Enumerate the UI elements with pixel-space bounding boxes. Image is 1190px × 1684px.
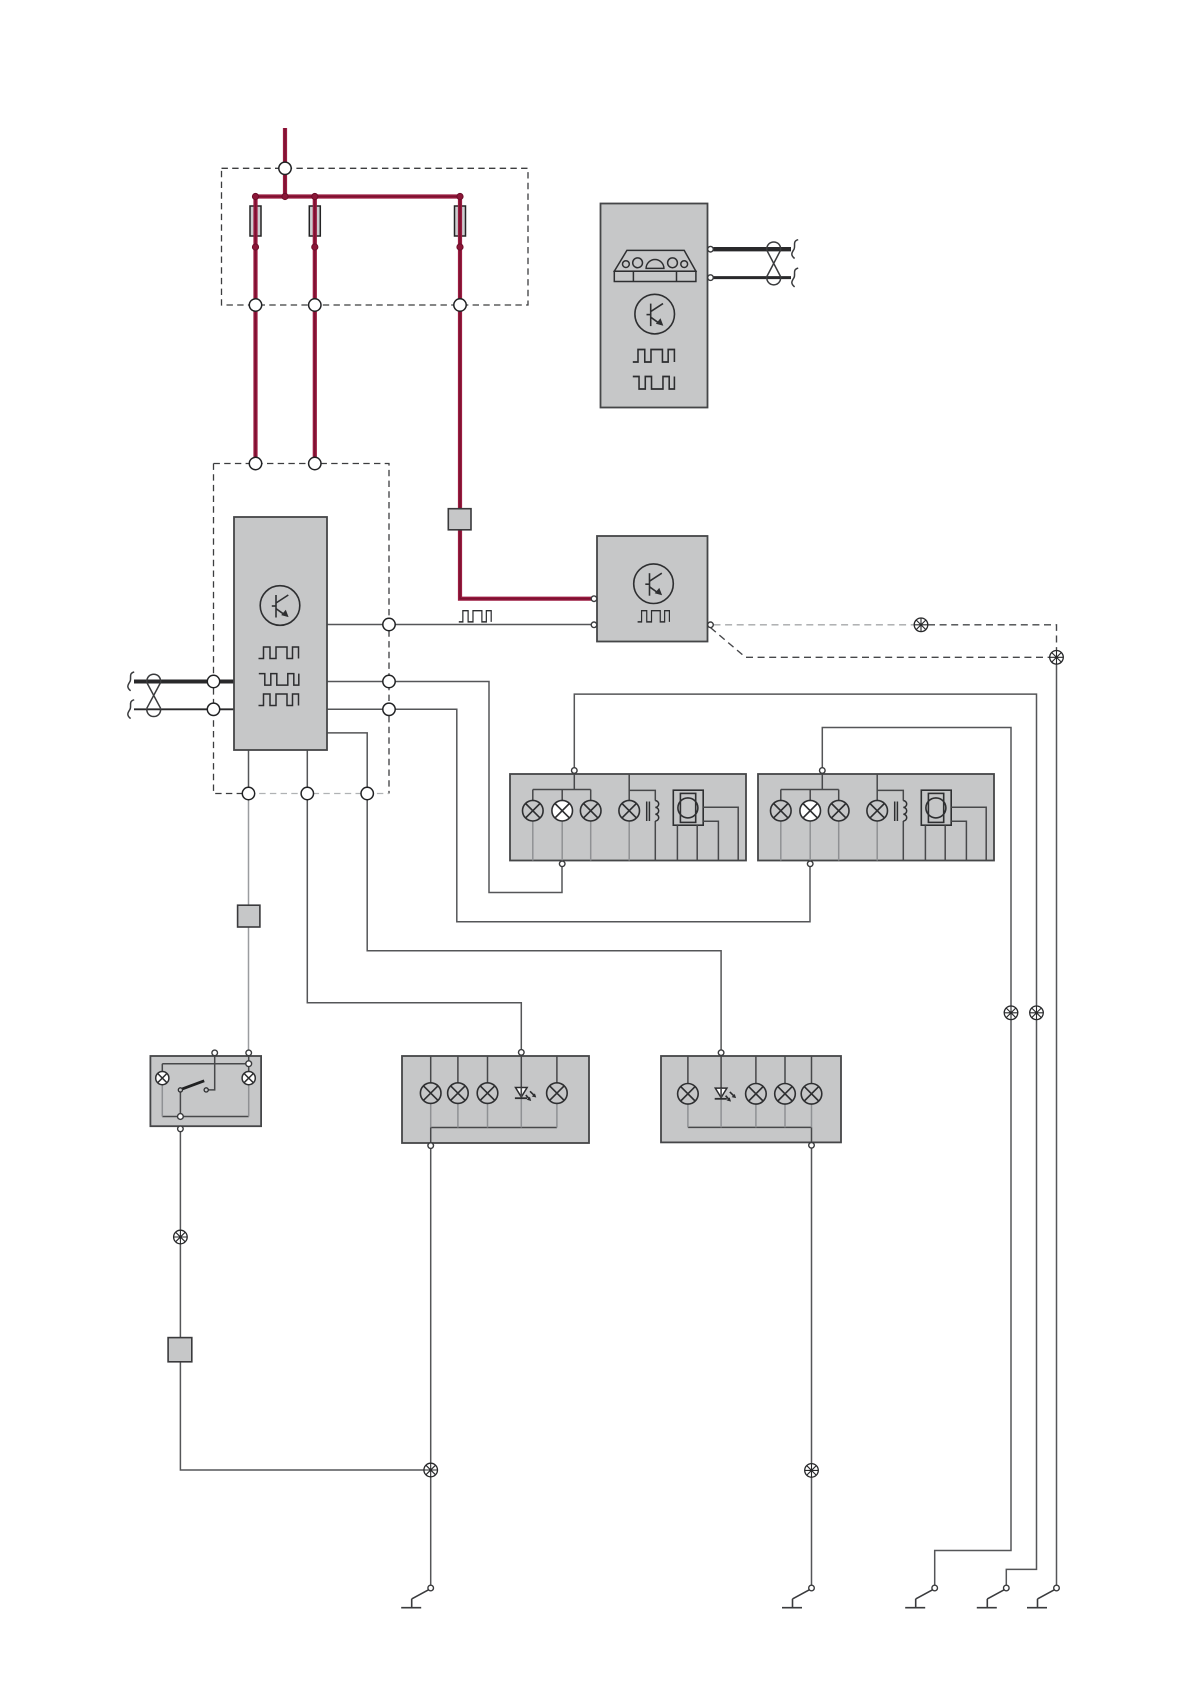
pin U2 CAN high xyxy=(708,246,714,252)
connector U1 right 2 xyxy=(383,675,395,687)
connector U1 top 1 xyxy=(249,457,261,469)
pin U3 signal in xyxy=(591,622,597,628)
control module U3 xyxy=(597,536,708,642)
switch junction bottom xyxy=(178,1114,184,1120)
wire fuse F3 branch to module U3 (red) xyxy=(460,197,591,599)
splice X5 xyxy=(174,1230,188,1244)
splice X4 xyxy=(1030,1006,1044,1020)
connector fuse box out 2 xyxy=(309,299,321,311)
square wave icon U2 row1 xyxy=(633,350,675,363)
wire U1 to left turn lamp module xyxy=(307,750,521,1050)
pin U2 CAN low xyxy=(708,275,714,281)
splice X3 xyxy=(1004,1006,1018,1020)
connector U1 bottom 3 xyxy=(361,787,373,799)
ground G5 xyxy=(1027,1585,1059,1608)
square wave icon U1 row2 xyxy=(259,674,299,686)
transistor icon U3 xyxy=(634,564,674,604)
connector U1 right 3 xyxy=(383,703,395,715)
switch pivot xyxy=(178,1088,182,1092)
twisted pair symbol (left) xyxy=(147,674,161,716)
CAN bus wire high (U2 right, thick black) xyxy=(713,247,791,251)
power bus wire (red) xyxy=(256,194,461,198)
ground G4 xyxy=(977,1585,1009,1608)
junction dot node A1 xyxy=(252,193,258,199)
left turn lamp module xyxy=(402,1050,589,1149)
fuse F1 body xyxy=(250,206,261,236)
square wave icon U1 row3 xyxy=(259,694,299,706)
dashboard icon U2 xyxy=(614,250,696,281)
switch bottom bus xyxy=(162,1116,248,1118)
wire right turn module to ground G2 xyxy=(811,1148,813,1585)
switch pivot drop xyxy=(179,1092,181,1114)
junction dot node A4 xyxy=(457,193,463,199)
switch lamp bottoms xyxy=(162,1085,248,1117)
splice X2 xyxy=(1050,651,1064,665)
wire break squiggle (U2 low) xyxy=(792,268,798,287)
connector fuse box out 3 xyxy=(454,299,466,311)
right headlamp unit xyxy=(758,768,994,867)
CEM dashed outline bottom (light) xyxy=(249,793,390,795)
square wave icon U2 row2 xyxy=(633,377,675,390)
control module U1 (CEM) xyxy=(234,517,327,750)
splice X1 xyxy=(914,618,928,632)
connector U1 top 2 xyxy=(309,457,321,469)
switch pin bottom xyxy=(178,1126,184,1132)
square wave label on signal wire xyxy=(459,611,491,622)
square wave icon U3 xyxy=(638,611,670,622)
hazard switch S1 xyxy=(150,1050,261,1132)
switch contact point xyxy=(204,1088,208,1092)
switch contact wire xyxy=(208,1056,214,1090)
dashed diagonal wire from U3 pin xyxy=(711,628,1050,658)
square wave icon U1 row1 xyxy=(259,647,299,659)
junction dot below fuse F3 xyxy=(457,244,463,250)
wire fuse F1 branch (red) xyxy=(253,197,257,464)
ground G2 xyxy=(782,1585,814,1608)
wire U1 to right turn lamp module xyxy=(327,733,721,1050)
splice X7 xyxy=(805,1464,819,1478)
wire left turn module to ground G1 xyxy=(430,1148,432,1585)
right turn lamp module xyxy=(661,1050,841,1148)
wire left headlamp feed to ground G4 xyxy=(574,694,1036,1585)
transistor icon U1 xyxy=(260,586,300,626)
wire U1 pin to U3 pin (signal) xyxy=(327,624,591,626)
wire connector to switch S1 (light gray) xyxy=(248,794,250,1051)
pin U3 power in xyxy=(591,596,597,602)
CAN bus wire high (left, thick black) xyxy=(134,680,234,684)
connector U1 right 1 xyxy=(383,618,395,630)
inline connector on switch feed wire xyxy=(238,905,260,927)
pin U3 signal out xyxy=(708,622,714,628)
ground G3 xyxy=(905,1585,937,1608)
connector U1 left 1 xyxy=(207,675,219,687)
wire U1 to switch S1 (upper segment) xyxy=(248,750,250,794)
switch lever xyxy=(182,1081,204,1089)
wire U1 to left headlamp return xyxy=(327,682,562,893)
wire break squiggle (U2 high) xyxy=(792,240,798,259)
ground G1 xyxy=(401,1585,433,1608)
battery supply wire (red) xyxy=(283,128,287,197)
connector at battery feed xyxy=(279,162,291,174)
fuse F2 body xyxy=(309,206,320,236)
wire break squiggle (left high) xyxy=(128,672,134,691)
connector U1 left 2 xyxy=(207,703,219,715)
switch pin top left xyxy=(212,1050,218,1056)
switch lamp right xyxy=(242,1072,255,1085)
instrument cluster module U2 xyxy=(601,204,708,408)
inline connector on red wire xyxy=(448,509,471,530)
fuse F3 body xyxy=(455,206,466,236)
wire splice X2 to ground G5 xyxy=(1056,657,1058,1585)
wire U1 to right headlamp return xyxy=(327,709,810,922)
junction dot node A3 xyxy=(312,193,318,199)
junction dot below fuse F2 xyxy=(312,244,318,250)
dashed signal wire from U3 pin (light) xyxy=(714,624,915,626)
CEM control module dashed outline xyxy=(214,464,390,794)
switch pin top right xyxy=(246,1050,252,1056)
wire break squiggle (left low) xyxy=(128,700,134,719)
dashed signal wire to splice X2 xyxy=(928,625,1057,650)
inline connector on switch ground wire xyxy=(168,1338,192,1362)
left headlamp unit xyxy=(510,768,746,867)
switch junction top xyxy=(246,1061,252,1067)
switch lamp left xyxy=(156,1072,169,1085)
switch internal bus top xyxy=(248,1056,250,1061)
CAN bus wire low (U2 right, black) xyxy=(713,276,791,279)
splice X6 xyxy=(424,1463,438,1477)
connector fuse box out 1 xyxy=(249,299,261,311)
junction dot node A2 xyxy=(282,193,288,199)
wire fuse F2 branch (red) xyxy=(313,197,317,464)
fuse box 11/115 dashed outline xyxy=(222,168,529,305)
connector U1 bottom 2 xyxy=(301,787,313,799)
transistor icon U2 xyxy=(635,294,675,334)
wire right headlamp feed to ground G3 xyxy=(822,728,1011,1586)
CAN bus wire low (left, thin black) xyxy=(134,708,234,710)
wire switch S1 to ground junction xyxy=(180,1132,430,1470)
connector U1 bottom 1 xyxy=(242,787,254,799)
twisted pair symbol (U2 right) xyxy=(767,242,781,285)
junction dot below fuse F1 xyxy=(252,244,258,250)
